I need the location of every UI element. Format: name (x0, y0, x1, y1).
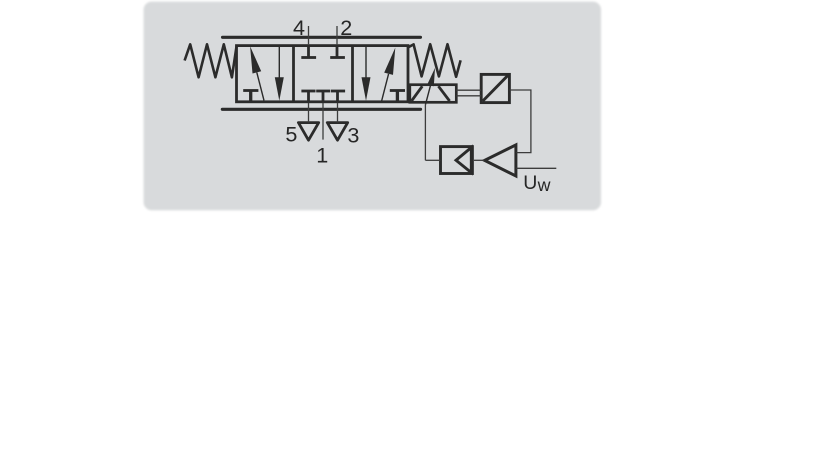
svg-text:U: U (523, 172, 537, 194)
svg-text:1: 1 (316, 142, 328, 167)
svg-text:3: 3 (347, 123, 359, 148)
svg-text:2: 2 (340, 15, 352, 40)
svg-text:w: w (537, 175, 551, 195)
svg-text:4: 4 (293, 15, 305, 40)
svg-text:5: 5 (285, 121, 297, 146)
